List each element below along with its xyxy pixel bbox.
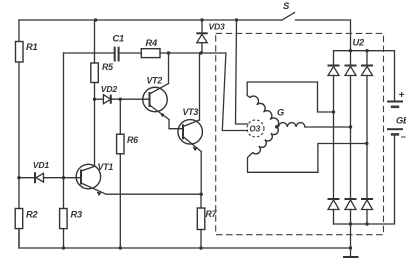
transistor VT2 — [143, 76, 169, 120]
node botbus-col2 — [349, 222, 352, 225]
node bottom-R7 — [199, 246, 202, 249]
svg-text:R3: R3 — [71, 210, 84, 220]
resistor R1 — [16, 42, 38, 63]
resistor R5 — [91, 62, 113, 83]
resistor R3 — [60, 209, 83, 229]
winding phase1 — [247, 96, 278, 127]
winding phase3 — [253, 127, 279, 154]
node topbus-col3 — [365, 49, 368, 52]
wire divider column — [63, 53, 65, 248]
svg-text:VD1: VD1 — [33, 160, 50, 170]
winding phase2 — [279, 123, 305, 127]
node VD1-left — [17, 176, 20, 179]
node bottom-R6 — [119, 246, 122, 249]
wire R6 column — [119, 99, 121, 248]
node top-VD3 — [200, 18, 203, 21]
excitation winding OZ — [247, 120, 264, 137]
node VD1-R3 — [62, 176, 65, 179]
transistor VT3 — [178, 107, 203, 152]
wire C1-R4 rail — [64, 52, 226, 54]
node R5-VD2 — [93, 98, 96, 101]
node emitter-R7 — [200, 193, 203, 196]
resistor R6 — [117, 134, 139, 154]
svg-text:GB: GB — [396, 116, 406, 126]
generator G label — [277, 108, 284, 118]
wire bottom bus — [19, 229, 351, 248]
dashed generator box — [216, 33, 384, 234]
svg-text:R2: R2 — [26, 210, 39, 220]
svg-text:R6: R6 — [127, 135, 138, 145]
resistor R4 — [141, 38, 160, 58]
svg-text:VT1: VT1 — [98, 162, 114, 172]
resistor R7 — [197, 208, 217, 230]
battery GB — [387, 90, 406, 142]
wire phase2 — [305, 126, 351, 128]
svg-text:VD2: VD2 — [101, 84, 118, 94]
svg-text:R4: R4 — [146, 38, 159, 48]
resistor R2 — [15, 209, 38, 229]
switch S — [282, 1, 351, 51]
wire R7 column — [200, 194, 202, 248]
wire rectifier top bus — [334, 51, 395, 102]
wire VT3 emitter — [200, 152, 202, 195]
node bottom-ground — [349, 246, 352, 249]
diode U2-bot2 — [345, 199, 357, 224]
diode VD2 — [95, 84, 150, 104]
diode U2-bot3 — [361, 199, 373, 224]
svg-text:R5: R5 — [102, 62, 113, 72]
wire R5 column — [94, 20, 96, 166]
svg-text:C1: C1 — [113, 34, 125, 44]
svg-text:+: + — [399, 90, 405, 101]
svg-text:R1: R1 — [26, 42, 38, 52]
node top-R5 — [94, 18, 97, 21]
wire phase3 — [248, 144, 367, 173]
wire VT2 collector — [168, 53, 170, 84]
wire left column — [18, 20, 20, 248]
ground — [343, 248, 359, 257]
wire top bus left — [19, 19, 282, 21]
node R4-VT2c — [167, 51, 170, 54]
node star center — [275, 125, 279, 129]
node phase1-col1 — [332, 110, 335, 113]
svg-text:S: S — [283, 1, 290, 12]
wire phase1 — [247, 82, 333, 112]
wire VT1 emitter rail — [106, 193, 201, 195]
wire VT2 emitter to VT3 base — [169, 120, 183, 129]
wire VT3 collector — [199, 53, 201, 120]
rectifier U2 label — [353, 38, 366, 48]
node bottom-R3 — [62, 246, 65, 249]
diode U2-bot1 — [328, 199, 340, 224]
node botbus-col3 — [365, 222, 368, 225]
wire col3 — [366, 76, 368, 200]
wire col2 — [350, 76, 352, 200]
node phase3-col3 — [365, 142, 368, 145]
node top-excitation — [235, 18, 238, 21]
svg-text:VT2: VT2 — [147, 76, 163, 86]
wire excitation feed upper — [236, 20, 248, 124]
svg-text:−: − — [401, 132, 406, 142]
node VD2-R6 — [119, 98, 122, 101]
wire col2 ground extension — [350, 224, 352, 248]
wire col1 — [333, 76, 335, 200]
diode U2-top2 — [345, 51, 357, 76]
svg-text:U2: U2 — [353, 38, 366, 48]
svg-text:VT3: VT3 — [183, 107, 199, 117]
diode U2-top1 — [328, 66, 340, 76]
diode VD1 — [19, 160, 81, 183]
diode U2-top3 — [361, 51, 373, 76]
diode VD3 — [196, 20, 225, 53]
svg-text:ОЗ: ОЗ — [250, 125, 261, 134]
svg-text:G: G — [277, 108, 284, 118]
transistor VT1 — [76, 162, 113, 196]
svg-text:VD3: VD3 — [209, 22, 226, 32]
node VD3-VT3c — [199, 51, 202, 54]
wire rectifier bottom bus — [334, 136, 395, 224]
wire excitation feed lower — [222, 53, 247, 131]
capacitor C1 — [113, 34, 125, 62]
node phase2-col2 — [349, 125, 352, 128]
node topbus-col2 — [349, 49, 352, 52]
